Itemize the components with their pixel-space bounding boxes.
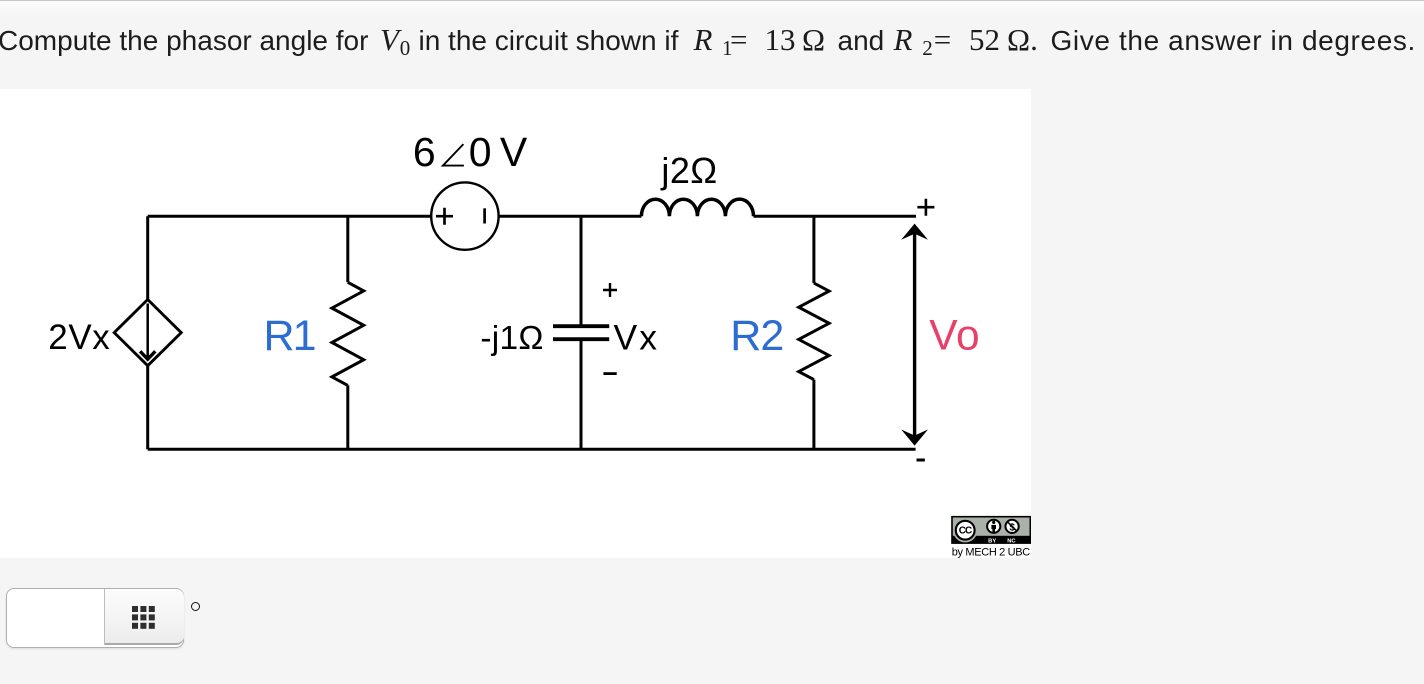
svg-text:R1: R1 <box>264 312 317 360</box>
svg-text:j2Ω: j2Ω <box>660 150 717 191</box>
svg-text:Vo: Vo <box>929 312 979 359</box>
svg-text:BY: BY <box>988 538 996 544</box>
svg-text:CC: CC <box>959 526 972 537</box>
svg-text:-j1Ω: -j1Ω <box>480 320 543 357</box>
svg-text:6: 6 <box>413 129 436 175</box>
svg-text:2Vx: 2Vx <box>48 318 110 357</box>
svg-text:Vx: Vx <box>614 318 658 358</box>
svg-text:by MECH 2 UBC: by MECH 2 UBC <box>952 546 1031 558</box>
svg-text:0 V: 0 V <box>469 129 528 175</box>
svg-text:R2: R2 <box>730 312 784 360</box>
svg-text:NC: NC <box>1007 538 1016 544</box>
